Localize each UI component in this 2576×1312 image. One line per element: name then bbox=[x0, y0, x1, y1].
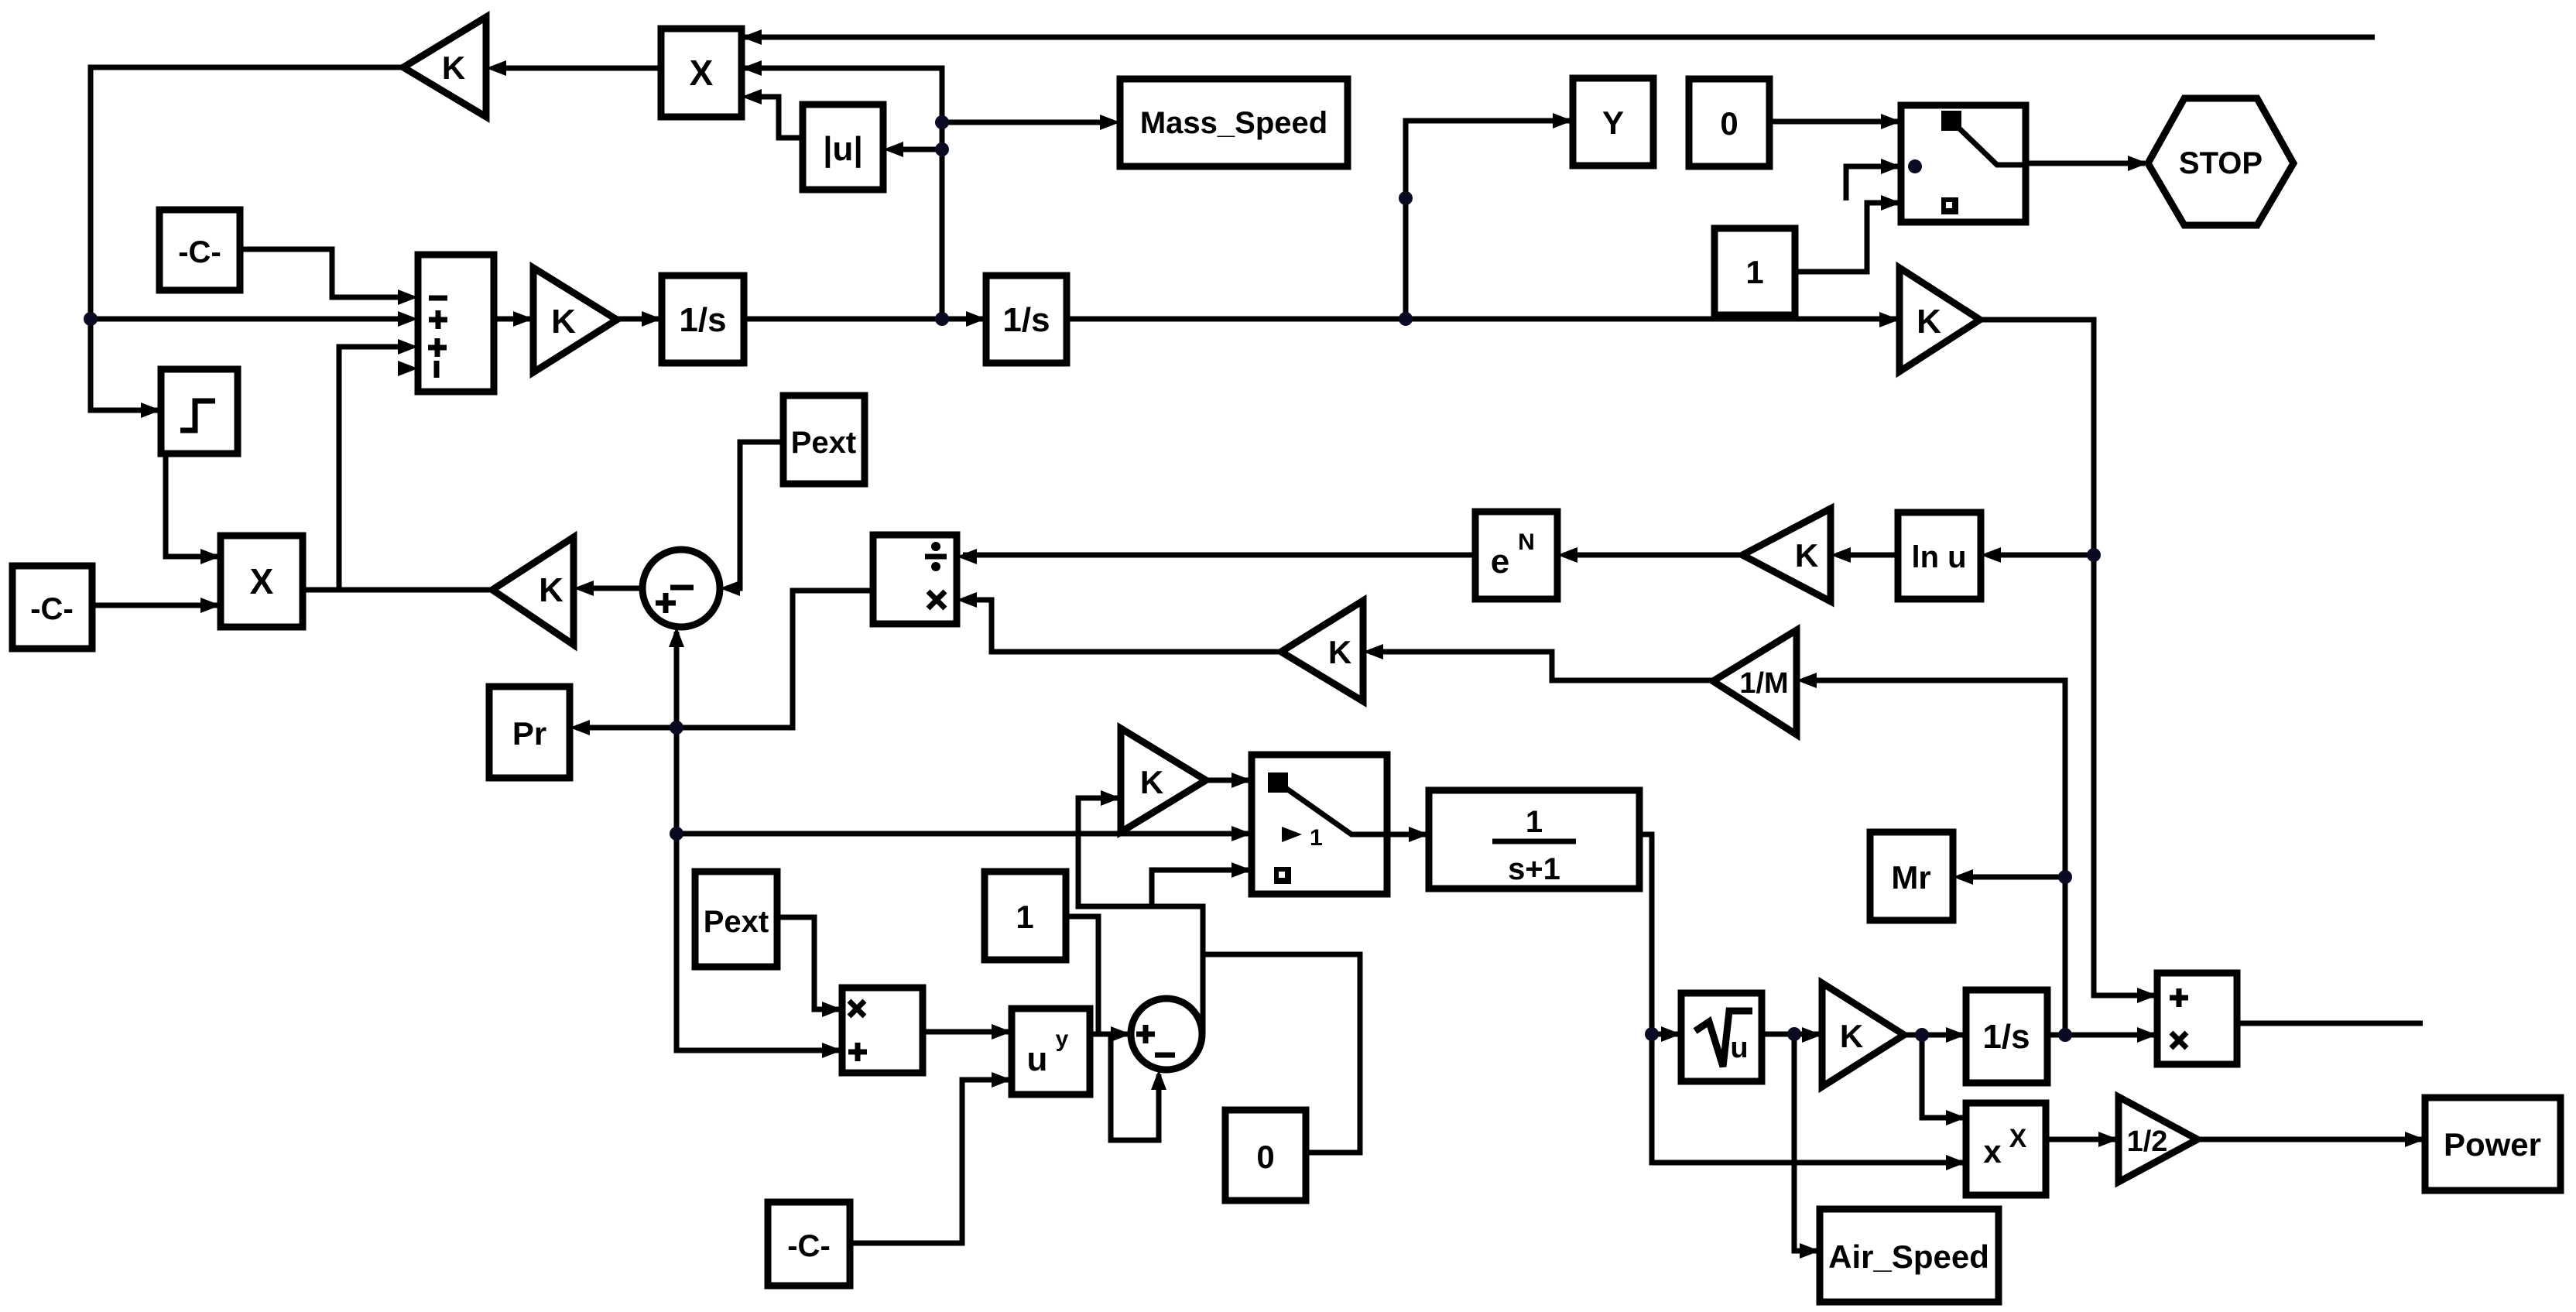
constant Pext b bbox=[695, 872, 777, 967]
wire: -C- 3 to u^y input2 bbox=[850, 1080, 1009, 1243]
arrow into sum C1 bottom bbox=[669, 627, 684, 647]
arrow into gain half bbox=[2098, 1132, 2119, 1147]
constant Pext a bbox=[783, 396, 865, 484]
wire: u^y output into sum circle C2 plus input bbox=[1090, 1032, 1128, 1037]
wire: bus to ln u input bbox=[1987, 553, 2094, 558]
wire: constant 1t to switch SW1 input3 bbox=[1795, 203, 1898, 272]
scope Air_Speed bbox=[1820, 1209, 1999, 1302]
arrow into e^N bbox=[1557, 547, 1577, 563]
arrow into X2 in1 bbox=[200, 549, 221, 564]
arrow into step bbox=[141, 403, 161, 418]
svg-text:Power: Power bbox=[2444, 1126, 2541, 1163]
svg-text:1: 1 bbox=[1526, 805, 1543, 839]
switch SW2 bbox=[1252, 755, 1387, 894]
svg-text:STOP: STOP bbox=[2179, 146, 2263, 180]
arrow into gain K1 bbox=[513, 311, 533, 327]
node pr tee bbox=[670, 721, 683, 735]
wire: branch down to xX input1 bbox=[1922, 1035, 1963, 1118]
divide block D1 (flipped) bbox=[873, 535, 957, 624]
arrow into sum C2 bottom bbox=[1151, 1070, 1166, 1090]
arrow into SW2 in3 bbox=[1231, 862, 1252, 878]
wire: branch into sqrt u bbox=[1652, 1032, 1678, 1037]
node main-left bbox=[84, 312, 98, 326]
product P3 (divide style) bbox=[2157, 973, 2237, 1064]
svg-text:1/M: 1/M bbox=[1739, 667, 1788, 700]
wire: product P3 output open ended bbox=[2237, 1021, 2423, 1026]
wire: switch SW2 output to transfer fcn bbox=[1387, 832, 1426, 838]
wire: K1t output down left side to main line and step input bbox=[91, 67, 403, 410]
arrow into Mass_Speed bbox=[1100, 115, 1120, 130]
wire: |u| output to X1 input3 bbox=[751, 97, 803, 138]
arrow into gain K1t bbox=[486, 60, 506, 76]
math ln u bbox=[1898, 512, 1981, 599]
wire: transfer fcn feedback down to sqrt u and xX input2 bbox=[1639, 834, 1963, 1163]
svg-text:1: 1 bbox=[1016, 899, 1033, 935]
wire: xX output to gain half bbox=[2046, 1137, 2115, 1142]
arrow into SW1 in2 bbox=[1881, 159, 1901, 174]
constant 0t bbox=[1689, 79, 1769, 166]
constant -C- b bbox=[12, 566, 92, 649]
node mr tee bbox=[2058, 870, 2072, 884]
arrow into P3 plus bbox=[2137, 988, 2157, 1003]
svg-text:-C-: -C- bbox=[178, 235, 221, 269]
wire: 1/M output to gain KM input bbox=[1369, 652, 1713, 680]
wire: sum C1 output to gain KL input bbox=[580, 586, 642, 591]
wire: junction up into sum circle C1 bottom bbox=[674, 632, 680, 728]
arrow into sqrt u bbox=[1661, 1026, 1681, 1042]
arrow into ln u bbox=[1981, 547, 2001, 563]
arrow into Power bbox=[2405, 1132, 2425, 1147]
wire: sum C2 right side up through maze to 0b, switch SW2 input3 and gain KB input bbox=[1078, 798, 1203, 1034]
node main mid bbox=[935, 312, 949, 326]
product P2 bbox=[842, 988, 923, 1073]
wire: gain KB output to switch SW2 input1 bbox=[1206, 778, 1249, 783]
wire: branch to Mr bbox=[1959, 875, 2065, 880]
wire: gain KL2 output to e^N input bbox=[1564, 553, 1742, 558]
constant 0b bbox=[1225, 1110, 1306, 1201]
scope Power bbox=[2425, 1098, 2561, 1190]
svg-text:X: X bbox=[2009, 1124, 2027, 1153]
arrow into u^y in2 bbox=[992, 1072, 1012, 1088]
constant 1t bbox=[1714, 228, 1795, 315]
svg-text:-C-: -C- bbox=[787, 1229, 831, 1263]
switch SW1 bbox=[1901, 105, 2026, 222]
svg-text:K: K bbox=[1795, 537, 1818, 574]
arrow into 1/M bbox=[1797, 673, 1817, 688]
wire: 1/s b output main line to gain K2 bbox=[1067, 317, 1896, 322]
arrow into xX in1 bbox=[1946, 1110, 1966, 1125]
wire: to Mass_Speed bbox=[942, 120, 1108, 125]
svg-text:1/s: 1/s bbox=[1002, 301, 1050, 339]
node sw2 tee bbox=[670, 827, 683, 841]
wire: -C- 2 to X2 input2 bbox=[92, 603, 218, 608]
svg-text:Air_Speed: Air_Speed bbox=[1828, 1238, 1989, 1275]
node sqrt out bbox=[1787, 1027, 1801, 1041]
scope Y bbox=[1573, 78, 1653, 166]
wire: into |u| right edge bbox=[892, 147, 942, 152]
arrow into sum S1 in3 bbox=[398, 339, 418, 355]
gain K1t (top-left, points left) bbox=[403, 17, 486, 117]
arrow into xX in2 bbox=[1946, 1155, 1966, 1170]
svg-text:X: X bbox=[250, 561, 274, 601]
svg-text:0: 0 bbox=[1256, 1139, 1274, 1175]
svg-text:y: y bbox=[1056, 1026, 1069, 1052]
arrow into sum C1 right bbox=[720, 581, 740, 596]
svg-text:1/2: 1/2 bbox=[2127, 1125, 2168, 1158]
wire: switch SW1 output to STOP bbox=[2026, 161, 2145, 166]
node 1sc out bbox=[2058, 1028, 2072, 1042]
node mass tee bbox=[935, 115, 949, 129]
arrow into 1/s a bbox=[642, 311, 662, 327]
integrator 1/s b bbox=[986, 276, 1067, 363]
wire: Pext a output down into sum C1 right input bbox=[726, 442, 783, 588]
wire: U branch into sum C2 bottom minus input bbox=[1111, 1034, 1159, 1140]
svg-text:K: K bbox=[1328, 634, 1351, 670]
arrow into Mr bbox=[1953, 869, 1973, 885]
arrow into sum S1 in1 bbox=[398, 289, 418, 305]
arrow into gain K2 bbox=[1879, 312, 1899, 327]
svg-text:u: u bbox=[1730, 1032, 1748, 1064]
svg-text:x: x bbox=[1983, 1133, 2002, 1170]
wire: gain K2 output down right bus x=2705 to product P3 plus input bbox=[1980, 320, 2154, 995]
svg-text:e: e bbox=[1491, 543, 1509, 581]
wire: gain half output to Power bbox=[2197, 1137, 2422, 1142]
arrow into transfer fcn bbox=[1409, 827, 1429, 842]
arrow into divide plus bbox=[957, 549, 977, 564]
wire: riser to scope Y bbox=[1406, 121, 1570, 319]
svg-text:|u|: |u| bbox=[823, 130, 863, 169]
constant -C- a bbox=[159, 210, 240, 290]
node y riser bbox=[1399, 191, 1413, 205]
svg-text:X: X bbox=[690, 53, 714, 93]
arrow into sum C2 plus bbox=[1111, 1026, 1131, 1042]
arrow into SW1 in1 bbox=[1881, 114, 1901, 129]
wire: branch down to Air_Speed bbox=[1794, 1034, 1817, 1251]
arrow into STOP bbox=[2128, 156, 2148, 171]
svg-text:K: K bbox=[1840, 1018, 1863, 1054]
wire: product P2 output to u^y input1 bbox=[923, 1029, 1009, 1035]
wire: hanging stub to switch SW1 input2 bbox=[1846, 166, 1898, 200]
sink STOP hexagon bbox=[2148, 98, 2293, 225]
wire: 1/s c output to product P3 times input bbox=[2047, 1033, 2154, 1038]
arrow into gain KL input bbox=[574, 581, 594, 596]
svg-text:ln u: ln u bbox=[1911, 540, 1966, 574]
gain KB (points right) bbox=[1121, 728, 1206, 832]
integrator 1/s a bbox=[662, 276, 744, 363]
arrow into X1 in3 bbox=[742, 89, 762, 104]
sum circle C1 bbox=[642, 550, 720, 627]
arrow into gain K3 bbox=[1802, 1027, 1822, 1043]
svg-text:0: 0 bbox=[1720, 105, 1738, 142]
arrow into 1/s b bbox=[966, 311, 986, 327]
arrow into gain KL2 bbox=[1831, 547, 1851, 563]
arrow into X2 in2 bbox=[200, 598, 221, 613]
gain K1 (points right) bbox=[533, 268, 617, 372]
node main y bbox=[1399, 312, 1413, 326]
wire: 1/s a output to 1/s b bbox=[744, 317, 983, 322]
arrow into sum S1 in2 bbox=[398, 311, 418, 327]
scope Mass_Speed bbox=[1120, 79, 1348, 166]
svg-text:Pr: Pr bbox=[512, 715, 546, 752]
arrow into gain KL tip bbox=[492, 582, 512, 598]
arrow into |u| bbox=[883, 142, 903, 157]
arrow stub sum S1 in4 bbox=[398, 361, 418, 376]
constant Mr (flipped) bbox=[1870, 832, 1953, 920]
arrow into Air_Speed bbox=[1800, 1243, 1820, 1259]
gain K3 (points right) bbox=[1822, 983, 1904, 1087]
wire: junction to Pr block bbox=[576, 725, 677, 731]
wire: sqrt u output to gain K3 bbox=[1762, 1032, 1819, 1037]
wire: X2 output to gain KL tip, with riser to sum S1 input3 bbox=[303, 587, 495, 593]
gain KL (points left) bbox=[492, 537, 574, 645]
math sqrt u bbox=[1681, 993, 1762, 1081]
arrow into SW1 in3 bbox=[1881, 195, 1901, 211]
gain half 1/2 (points right) bbox=[2119, 1097, 2197, 1182]
product X1 (flipped) bbox=[661, 29, 742, 117]
arrow into 1/s c bbox=[1946, 1027, 1966, 1043]
svg-text:u: u bbox=[1027, 1040, 1048, 1078]
integrator 1/s c bbox=[1966, 990, 2047, 1083]
sum circle C2 bbox=[1131, 999, 1202, 1070]
arrow into divide times bbox=[957, 592, 977, 608]
svg-text:K: K bbox=[551, 303, 576, 341]
arrow into X1 in2 bbox=[742, 60, 762, 76]
svg-text:K: K bbox=[1140, 764, 1163, 800]
gain 1/M (points left) bbox=[1713, 630, 1797, 735]
svg-text:Mass_Speed: Mass_Speed bbox=[1140, 106, 1327, 140]
svg-text:1: 1 bbox=[1310, 825, 1323, 851]
arrow into gain KB bbox=[1101, 790, 1121, 806]
svg-text:1/s: 1/s bbox=[1982, 1018, 2030, 1056]
wire: long vertical x=874 down with branch to switch SW2 input2 bbox=[677, 728, 839, 1050]
arrow into gain KM bbox=[1363, 644, 1383, 659]
wire: constant 0t to switch SW1 input1 bbox=[1769, 119, 1898, 125]
arrow into SW2 in1 bbox=[1231, 772, 1252, 788]
wire: gain K3 output to 1/s c bbox=[1904, 1033, 1963, 1038]
svg-text:K: K bbox=[1917, 303, 1941, 341]
arrow into Pr bbox=[570, 720, 590, 735]
wire: sum S1 output to gain K1 bbox=[494, 317, 530, 322]
svg-text:N: N bbox=[1518, 529, 1535, 555]
svg-text:Pext: Pext bbox=[791, 426, 857, 460]
svg-text:1/s: 1/s bbox=[679, 301, 726, 339]
node lnu tee bbox=[2087, 548, 2101, 562]
math xX square bbox=[1966, 1103, 2046, 1195]
constant -C- c bbox=[768, 1202, 850, 1286]
math u^y bbox=[1012, 1009, 1090, 1094]
node abs tee bbox=[935, 142, 949, 156]
sum S1 (rectangular) bbox=[418, 255, 494, 392]
arrow into P2 plus bbox=[822, 1043, 842, 1058]
gain KM (points left) bbox=[1281, 601, 1363, 701]
step block bbox=[161, 369, 238, 454]
svg-text:-C-: -C- bbox=[30, 592, 74, 626]
abs |u| (flipped) bbox=[803, 104, 883, 190]
wire: gain KM output to divide block times input bbox=[963, 600, 1281, 652]
wire: divide output down to Pr junction bbox=[677, 591, 873, 728]
arrow into Y bbox=[1553, 113, 1573, 128]
product X2 bbox=[221, 536, 303, 627]
svg-text:Pext: Pext bbox=[704, 905, 769, 939]
wire: ln u output to gain KL2 bbox=[1837, 553, 1898, 558]
gain KL2 (points left) bbox=[1742, 509, 1831, 601]
wire: main line into sum S1 input2 bbox=[91, 317, 406, 322]
arrow into SW2 in2 bbox=[1231, 826, 1252, 841]
math e^N bbox=[1475, 512, 1557, 599]
wire: gain K1 to integrator 1/s a bbox=[617, 317, 659, 322]
svg-text:s+1: s+1 bbox=[1508, 852, 1560, 886]
node k3 out bbox=[1915, 1028, 1929, 1042]
constant 1b bbox=[985, 872, 1066, 960]
arrow into P3 times bbox=[2137, 1027, 2157, 1043]
svg-text:K: K bbox=[442, 50, 465, 86]
svg-text:1: 1 bbox=[1745, 254, 1763, 290]
wire: top long line from product X1 input 1 to open right end bbox=[742, 35, 2375, 40]
transfer fcn 1/(s+1) bbox=[1429, 790, 1639, 889]
wire: -C- 1 to sum S1 input1 bbox=[240, 249, 406, 297]
svg-text:Y: Y bbox=[1602, 104, 1624, 141]
wire: X1 input2 horizontal and vertical bus x=1217 bbox=[742, 68, 942, 319]
gain K2 (points right) bbox=[1899, 268, 1980, 372]
arrow into P2 times bbox=[822, 1002, 842, 1017]
wire: constant 1b down into same node bbox=[1066, 916, 1098, 1034]
arrow into X1 in1 bbox=[742, 29, 762, 45]
wire: e^N output to divide block plus input bbox=[963, 553, 1475, 558]
arrow into u^y in1 bbox=[992, 1024, 1012, 1040]
svg-text:Mr: Mr bbox=[1891, 859, 1930, 896]
wire: step output to X2 input1 bbox=[166, 454, 218, 557]
wire: Pext b output to product P2 times input bbox=[777, 917, 839, 1009]
scope Pr (flipped) bbox=[489, 687, 570, 778]
node sqrt in bbox=[1645, 1027, 1659, 1041]
wire: X1 output to gain K1t bbox=[495, 66, 661, 71]
wire: 1/s c output bus x=2668 up to 1/M input bbox=[1803, 680, 2065, 1035]
svg-text:K: K bbox=[539, 571, 563, 609]
